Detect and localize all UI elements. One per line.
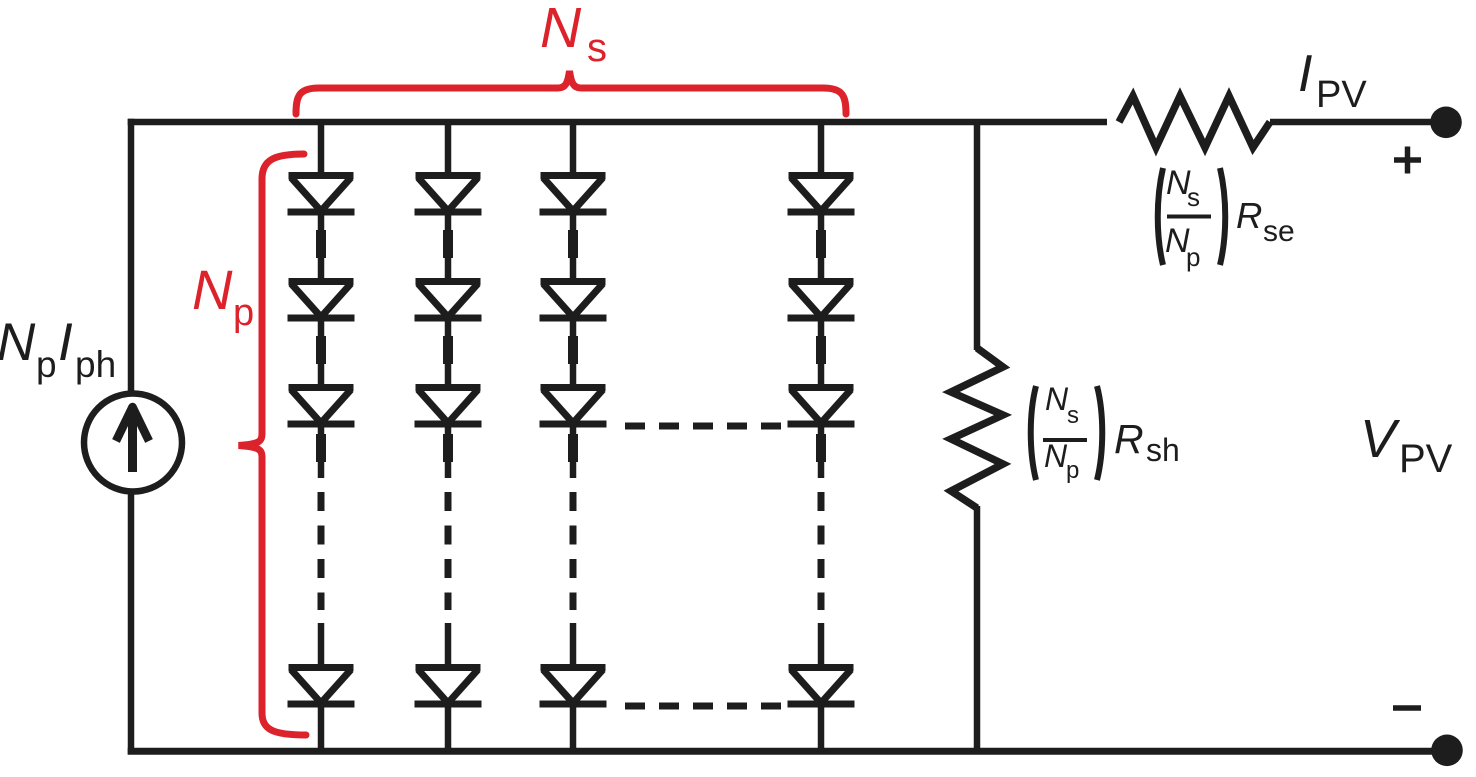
wire column 3 dashed section (omitted diodes) <box>570 492 577 610</box>
diode column 2 row 3 <box>415 388 482 425</box>
wire column 4 (rightmost) between diode row 1 and row 2 <box>818 212 825 282</box>
label Ns (red, above brace) <box>540 0 607 70</box>
positive output terminal node (filled dot) <box>1430 107 1462 139</box>
plus sign at positive terminal <box>1394 147 1421 174</box>
svg-text:p: p <box>36 344 57 385</box>
wire column 4 (rightmost) bottom lead to bottom bus <box>818 704 825 751</box>
wire column 4 (rightmost) dashed section (omitted diodes) <box>818 492 825 610</box>
diode column 2 row 2 <box>415 282 482 319</box>
svg-text:N: N <box>1045 381 1069 417</box>
dashed wire between column 3 and column 4 at diode row 3 level <box>625 423 782 430</box>
wire column 1 bottom lead to bottom bus <box>318 704 325 751</box>
diode column 4 (rightmost) row 2 <box>788 282 855 319</box>
wire column 1 dashed section (omitted diodes) <box>318 492 325 610</box>
wire column 1 top lead from top bus <box>318 122 325 179</box>
svg-text:R: R <box>1236 195 1262 236</box>
diode column 4 (rightmost) bottom row <box>788 668 855 705</box>
svg-text:PV: PV <box>1316 74 1367 116</box>
svg-text:p: p <box>1186 242 1200 272</box>
svg-text:p: p <box>233 292 254 334</box>
wire column 2 dashed section (omitted diodes) <box>445 492 452 610</box>
diode column 2 bottom row <box>415 668 482 705</box>
svg-text:N: N <box>192 258 233 321</box>
svg-text:N: N <box>540 0 582 60</box>
diode column 2 row 1 <box>415 176 482 213</box>
wire column 4 (rightmost) solid segment below diode row 3 <box>818 424 825 478</box>
svg-text:s: s <box>587 26 607 70</box>
svg-text:N: N <box>1044 438 1068 474</box>
wire top-right segment from Rse to positive terminal <box>1270 119 1447 126</box>
diode column 1 row 1 <box>288 176 355 213</box>
svg-text:p: p <box>1066 457 1079 484</box>
svg-text:s: s <box>1067 402 1079 429</box>
wire column 3 top lead from top bus <box>570 122 577 179</box>
diode column 3 bottom row <box>540 668 607 705</box>
diode column 4 (rightmost) row 1 <box>788 176 855 213</box>
wire left branch (through current source) <box>128 119 135 755</box>
diode column 1 row 3 <box>288 388 355 425</box>
resistor (Ns/Np)Rsh vertical zigzag <box>951 348 1003 508</box>
wire column 2 between diode row 1 and row 2 <box>445 212 452 282</box>
diode column 3 row 1 <box>540 176 607 213</box>
diode column 1 row 2 <box>288 282 355 319</box>
diode column 3 row 2 <box>540 282 607 319</box>
current source Np*Iph (circle with upward arrow) <box>84 394 182 492</box>
wire column 1 solid segment below diode row 3 <box>318 424 325 478</box>
svg-text:ph: ph <box>75 344 116 385</box>
wire column 2 bottom lead to bottom bus <box>445 704 452 751</box>
resistor (Ns/Np)Rse horizontal zigzag <box>1119 96 1270 148</box>
svg-text:s: s <box>1187 182 1200 212</box>
wire column 2 solid segment above bottom diode <box>445 623 452 671</box>
svg-text:se: se <box>1263 215 1295 248</box>
wire column 2 between diode row 2 and row 3 <box>445 318 452 388</box>
minus sign at negative terminal <box>1393 705 1421 711</box>
diode column 1 bottom row <box>288 668 355 705</box>
diode column 3 row 3 <box>540 388 607 425</box>
wire column 1 between diode row 1 and row 2 <box>318 212 325 282</box>
value label (Ns/Np)Rse for series resistor <box>1158 164 1295 272</box>
wire column 4 (rightmost) between diode row 2 and row 3 <box>818 318 825 388</box>
label Np (red, left of brace) <box>192 258 254 334</box>
svg-text:R: R <box>1114 416 1144 462</box>
label NpIph (current source value) <box>0 313 116 385</box>
red brace Np (vertical, spans parallel strings) <box>239 154 307 735</box>
negative output terminal node (filled dot) <box>1431 735 1463 767</box>
wire column 3 solid segment below diode row 3 <box>570 424 577 478</box>
svg-text:sh: sh <box>1146 432 1180 468</box>
wire column 2 solid segment below diode row 3 <box>445 424 452 478</box>
svg-text:N: N <box>0 313 36 372</box>
wire top bus (node A, top rail) <box>128 119 1107 126</box>
wire column 1 solid segment above bottom diode <box>318 623 325 671</box>
wire column 4 (rightmost) top lead from top bus <box>818 122 825 179</box>
dashed wire between column 3 and column 4 at bottom diode level <box>625 703 782 710</box>
wire column 3 between diode row 2 and row 3 <box>570 318 577 388</box>
red brace Ns (horizontal, spans series diodes) <box>296 71 846 114</box>
diode column 4 (rightmost) row 3 <box>788 388 855 425</box>
wire column 1 between diode row 2 and row 3 <box>318 318 325 388</box>
wire column 4 (rightmost) solid segment above bottom diode <box>818 623 825 671</box>
wire column 3 solid segment above bottom diode <box>570 623 577 671</box>
wire column 3 bottom lead to bottom bus <box>570 704 577 751</box>
svg-text:I: I <box>58 313 73 372</box>
wire column 3 between diode row 1 and row 2 <box>570 212 577 282</box>
svg-text:PV: PV <box>1399 437 1453 481</box>
wire bottom bus (node B, bottom rail) <box>128 748 1447 755</box>
svg-text:V: V <box>1360 409 1401 469</box>
wire column 2 top lead from top bus <box>445 122 452 179</box>
label IPV (output current) <box>1298 45 1367 116</box>
label VPV (output voltage) <box>1360 409 1453 481</box>
wire shunt branch upper lead <box>974 122 981 350</box>
svg-text:I: I <box>1298 45 1312 103</box>
value label (Ns/Np)Rsh for shunt resistor <box>1031 381 1180 484</box>
wire shunt branch lower lead <box>974 506 981 751</box>
